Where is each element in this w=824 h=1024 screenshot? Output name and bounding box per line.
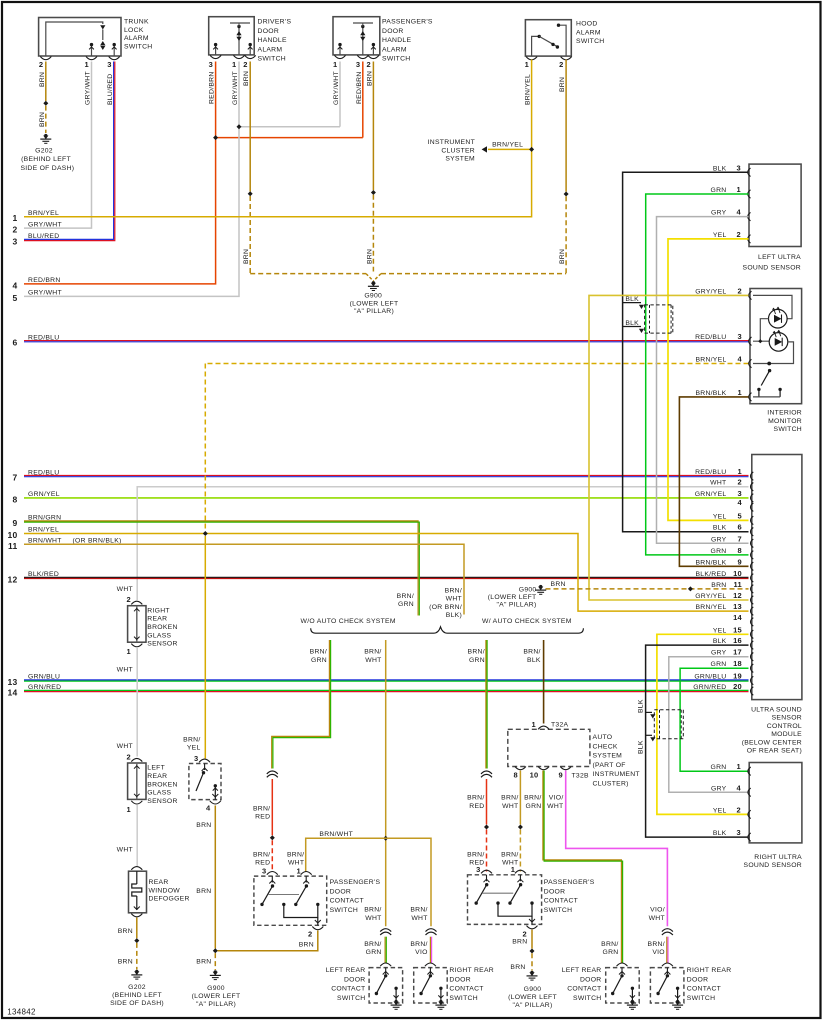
svg-text:BLU/RED: BLU/RED xyxy=(107,74,114,105)
svg-text:WHT: WHT xyxy=(502,803,518,810)
svg-text:GRN: GRN xyxy=(469,657,485,664)
interior monitor switch box xyxy=(750,289,802,404)
svg-text:1: 1 xyxy=(511,865,515,874)
svg-text:(OR BRN/: (OR BRN/ xyxy=(429,604,462,611)
driver door contact switch xyxy=(199,759,210,762)
svg-text:ALARM: ALARM xyxy=(576,29,601,36)
svg-text:ALARM: ALARM xyxy=(382,46,407,53)
wire BLU/RED trunk pin3 to wire3 xyxy=(24,62,114,240)
svg-text:BRN: BRN xyxy=(559,249,566,264)
svg-text:BRN: BRN xyxy=(196,888,211,895)
svg-text:(LOWER LEFT: (LOWER LEFT xyxy=(192,993,241,1000)
svg-text:BRN/: BRN/ xyxy=(468,649,485,656)
wire BRN/BLK interior pin1 to module pin9 xyxy=(679,397,748,566)
svg-text:11: 11 xyxy=(734,580,743,589)
wire VIO/WHT T32B pin9 to right rear door contact switch 2 xyxy=(566,771,668,927)
svg-text:SWITCH: SWITCH xyxy=(382,56,411,63)
svg-text:RIGHT REAR: RIGHT REAR xyxy=(687,967,732,974)
svg-text:SOUND SENSOR: SOUND SENSOR xyxy=(743,265,802,272)
wire 14 GRN/RED to module pin20 xyxy=(24,689,749,691)
svg-text:6: 6 xyxy=(738,523,742,532)
svg-text:GRY/YEL: GRY/YEL xyxy=(695,593,726,600)
svg-text:BLK): BLK) xyxy=(446,612,462,619)
svg-text:CLUSTER): CLUSTER) xyxy=(593,781,629,788)
svg-text:12: 12 xyxy=(733,591,742,600)
ground G202 bottom xyxy=(134,971,139,975)
svg-text:1: 1 xyxy=(127,647,131,656)
rear window defogger xyxy=(131,867,142,870)
svg-text:INTERIOR: INTERIOR xyxy=(767,410,802,417)
svg-text:BRN/YEL: BRN/YEL xyxy=(695,604,726,611)
wire 9 BRN/GRN to brace feeder xyxy=(24,521,418,616)
svg-text:SIDE OF DASH): SIDE OF DASH) xyxy=(20,165,74,172)
svg-text:17: 17 xyxy=(733,648,742,657)
svg-text:BRN/: BRN/ xyxy=(364,941,381,948)
module pin connectors and labels xyxy=(751,472,754,480)
svg-text:2: 2 xyxy=(523,930,527,939)
svg-text:REAR: REAR xyxy=(147,616,167,623)
brace wire 3 BRN/GRN to passenger door contact switch 2 pin3 xyxy=(485,640,487,769)
svg-text:RED/BRN: RED/BRN xyxy=(209,71,216,104)
svg-text:BRN: BRN xyxy=(366,71,373,86)
svg-text:1: 1 xyxy=(525,60,529,69)
svg-text:10: 10 xyxy=(530,771,539,780)
svg-text:DEFOGGER: DEFOGGER xyxy=(149,896,190,903)
svg-text:1: 1 xyxy=(737,762,741,771)
svg-text:(BEHIND LEFT: (BEHIND LEFT xyxy=(21,156,71,163)
svg-text:YEL: YEL xyxy=(713,232,727,239)
wire WHT between sensors xyxy=(136,647,138,757)
svg-text:RIGHT REAR: RIGHT REAR xyxy=(449,967,494,974)
wire BRN driver contact pin4 to G900 lower xyxy=(214,806,216,949)
svg-text:GRY/WHT: GRY/WHT xyxy=(232,71,239,105)
svg-text:GRN: GRN xyxy=(711,661,727,668)
svg-text:SWITCH: SWITCH xyxy=(449,995,478,1002)
svg-text:13: 13 xyxy=(733,602,742,611)
svg-text:14: 14 xyxy=(7,688,17,698)
svg-text:RED/BLU: RED/BLU xyxy=(695,469,726,476)
driver door handle alarm switch S2 xyxy=(209,17,255,55)
svg-text:RIGHT: RIGHT xyxy=(147,607,170,614)
passenger door contact switch 1 xyxy=(267,872,278,875)
svg-text:BRN/: BRN/ xyxy=(253,851,270,858)
svg-text:PASSENGER'S: PASSENGER'S xyxy=(382,19,433,26)
svg-text:GLASS: GLASS xyxy=(147,632,171,639)
svg-text:WHT: WHT xyxy=(365,657,381,664)
svg-text:3: 3 xyxy=(737,828,741,837)
svg-text:2: 2 xyxy=(127,595,131,604)
svg-text:VIO: VIO xyxy=(415,949,428,956)
auto check system dashed box xyxy=(508,729,590,766)
right ultra sound sensor box xyxy=(749,763,802,843)
svg-text:BRN/YEL: BRN/YEL xyxy=(28,527,59,534)
svg-text:BLK: BLK xyxy=(637,740,644,754)
svg-text:BLK: BLK xyxy=(625,296,639,303)
svg-text:BRN: BRN xyxy=(118,928,133,935)
svg-text:YEL: YEL xyxy=(187,745,201,752)
wire YEL module pin15 to right sensor pin2 xyxy=(657,634,749,814)
svg-text:3: 3 xyxy=(737,163,741,172)
svg-text:8: 8 xyxy=(514,771,518,780)
svg-text:YEL: YEL xyxy=(713,627,727,634)
wire BRN/YEL hood pin1 to wire1 xyxy=(24,60,532,217)
svg-text:ULTRA SOUND: ULTRA SOUND xyxy=(751,707,802,714)
svg-text:"A" PILLAR): "A" PILLAR) xyxy=(196,1001,236,1008)
svg-text:SWITCH: SWITCH xyxy=(544,907,573,914)
wire RED/BRN driver pin3 to wire4 and passenger pin3 xyxy=(24,62,216,284)
svg-text:GRY: GRY xyxy=(711,210,727,217)
svg-text:BLK/RED: BLK/RED xyxy=(695,571,726,578)
svg-text:BRN/: BRN/ xyxy=(601,941,618,948)
left rear door contact switch 1 xyxy=(369,968,403,1003)
svg-text:SWITCH: SWITCH xyxy=(573,995,602,1002)
svg-text:DOOR: DOOR xyxy=(544,888,566,895)
svg-text:BRN/: BRN/ xyxy=(524,795,541,802)
wire BRN passenger pin2 xyxy=(372,62,374,191)
wire BRN trunk pin2 to G202 xyxy=(45,62,47,102)
svg-text:BRN/YEL: BRN/YEL xyxy=(695,357,726,364)
wire BRN/WHT T32B pin8 to passenger door contact switch 2 pin1 xyxy=(519,771,521,825)
wire WHT broken glass sensors to module pin2 xyxy=(137,487,748,600)
wire 7 RED/BLU to module pin1 xyxy=(24,475,749,477)
svg-text:1: 1 xyxy=(127,805,131,814)
svg-text:(BELOW CENTER: (BELOW CENTER xyxy=(742,739,802,746)
svg-text:BRN/: BRN/ xyxy=(364,907,381,914)
svg-text:2: 2 xyxy=(737,230,741,239)
svg-text:2: 2 xyxy=(738,478,742,487)
svg-text:W/O AUTO CHECK SYSTEM: W/O AUTO CHECK SYSTEM xyxy=(301,618,396,625)
svg-text:1: 1 xyxy=(737,185,741,194)
svg-text:10: 10 xyxy=(733,569,742,578)
svg-text:3: 3 xyxy=(262,866,266,875)
svg-text:CONTACT: CONTACT xyxy=(330,898,364,905)
wire GRY/YEL interior pin2 to module pin12 xyxy=(589,295,749,600)
svg-text:2: 2 xyxy=(737,805,741,814)
wire 12 BLK/RED to module pin10 xyxy=(24,576,749,578)
svg-text:WHT: WHT xyxy=(547,803,563,810)
svg-text:BRN/: BRN/ xyxy=(467,851,484,858)
svg-text:AUTO: AUTO xyxy=(593,734,613,741)
svg-text:BRN: BRN xyxy=(243,249,250,264)
svg-text:BRN: BRN xyxy=(39,72,46,87)
svg-text:GRN/BLU: GRN/BLU xyxy=(694,674,726,681)
svg-text:HOOD: HOOD xyxy=(576,21,598,28)
wire 11 BRN/WHT to brace feeder xyxy=(24,544,464,614)
svg-text:3: 3 xyxy=(738,489,742,498)
svg-text:(BEHIND LEFT: (BEHIND LEFT xyxy=(112,992,162,999)
svg-text:WHT: WHT xyxy=(411,915,427,922)
svg-text:REAR: REAR xyxy=(147,773,167,780)
wire BRN/YEL dashed interior monitor pin4 to driver door contact switch xyxy=(205,363,748,365)
svg-text:WHT: WHT xyxy=(649,915,665,922)
svg-text:ALARM: ALARM xyxy=(124,35,149,42)
svg-text:(LOWER LEFT: (LOWER LEFT xyxy=(488,594,537,601)
svg-text:BRN/: BRN/ xyxy=(253,805,270,812)
svg-text:BLK: BLK xyxy=(713,830,727,837)
svg-text:19: 19 xyxy=(733,672,742,681)
left rear door contact switch 2 xyxy=(606,968,640,1003)
svg-text:9: 9 xyxy=(12,518,17,528)
svg-text:W/ AUTO CHECK SYSTEM: W/ AUTO CHECK SYSTEM xyxy=(482,618,572,625)
svg-text:4: 4 xyxy=(737,208,742,217)
svg-text:GLASS: GLASS xyxy=(147,790,171,797)
svg-text:RED/BLU: RED/BLU xyxy=(695,334,726,341)
svg-text:4: 4 xyxy=(738,355,743,364)
wire GRY/WHT driver pin1 to wire5 and passenger pin1 xyxy=(24,62,239,297)
svg-text:CONTACT: CONTACT xyxy=(449,986,483,993)
passenger door contact switch 2 xyxy=(481,870,492,873)
ultra sound sensor control module box xyxy=(752,455,802,700)
svg-text:BRN/: BRN/ xyxy=(364,649,381,656)
svg-text:HANDLE: HANDLE xyxy=(258,37,287,44)
svg-text:SYSTEM: SYSTEM xyxy=(445,156,475,163)
svg-text:2: 2 xyxy=(367,60,371,69)
svg-text:WINDOW: WINDOW xyxy=(149,887,181,894)
svg-text:SOUND SENSOR: SOUND SENSOR xyxy=(744,862,803,869)
svg-text:BRN/: BRN/ xyxy=(648,941,665,948)
svg-text:SENSOR: SENSOR xyxy=(147,798,177,805)
svg-text:BRN/: BRN/ xyxy=(501,795,518,802)
wire GRY/WHT trunk pin1 to wire2 xyxy=(24,62,92,229)
svg-text:BLU/RED: BLU/RED xyxy=(28,233,59,240)
svg-text:T32A: T32A xyxy=(551,722,569,729)
svg-text:BRN: BRN xyxy=(243,71,250,86)
svg-text:VIO: VIO xyxy=(652,949,665,956)
svg-text:G900: G900 xyxy=(519,586,537,593)
svg-text:GRN: GRN xyxy=(526,803,542,810)
wire BRN passenger contact 1 pin2 to G900 join xyxy=(218,931,318,951)
wire GRY module pin17 to right sensor pin4 xyxy=(669,657,749,793)
svg-text:BRN: BRN xyxy=(39,112,46,127)
svg-text:1: 1 xyxy=(738,467,742,476)
svg-text:WHT: WHT xyxy=(710,480,726,487)
svg-text:20: 20 xyxy=(733,682,742,691)
svg-text:2: 2 xyxy=(127,752,131,761)
G900 ground top center xyxy=(366,274,373,281)
svg-text:WHT: WHT xyxy=(117,586,133,593)
svg-text:13: 13 xyxy=(7,677,17,687)
svg-text:GRY/WHT: GRY/WHT xyxy=(85,71,92,105)
brace wire 1 BRN/GRN to passenger door contact switch 1 pin3 xyxy=(272,640,330,769)
trunk lock alarm switch S1 xyxy=(39,18,121,57)
svg-text:5: 5 xyxy=(738,511,742,520)
svg-text:YEL: YEL xyxy=(713,513,727,520)
svg-text:2: 2 xyxy=(243,60,247,69)
svg-text:RED: RED xyxy=(255,814,270,821)
svg-text:SWITCH: SWITCH xyxy=(258,56,287,63)
svg-text:BLK: BLK xyxy=(527,657,541,664)
svg-text:DOOR: DOOR xyxy=(382,28,404,35)
right rear door contact switch 1 xyxy=(414,968,448,1003)
svg-text:G202: G202 xyxy=(128,984,146,991)
svg-text:GRN: GRN xyxy=(711,548,727,555)
svg-text:1: 1 xyxy=(12,213,17,223)
svg-text:1: 1 xyxy=(738,388,742,397)
svg-text:(LOWER LEFT: (LOWER LEFT xyxy=(508,994,557,1001)
svg-text:CONTACT: CONTACT xyxy=(331,986,365,993)
svg-text:"A" PILLAR): "A" PILLAR) xyxy=(354,308,394,315)
wire GRN left sensor pin1 to module pin8 xyxy=(646,194,749,555)
svg-text:3: 3 xyxy=(356,60,360,69)
svg-text:BRN/YEL: BRN/YEL xyxy=(492,142,523,149)
svg-text:GRN/RED: GRN/RED xyxy=(693,684,726,691)
svg-text:BRN/: BRN/ xyxy=(467,795,484,802)
svg-text:BRN/WHT: BRN/WHT xyxy=(319,831,353,838)
svg-text:3: 3 xyxy=(476,865,480,874)
svg-text:BRN/: BRN/ xyxy=(410,941,427,948)
svg-text:15: 15 xyxy=(733,625,742,634)
svg-text:BROKEN: BROKEN xyxy=(147,624,177,631)
svg-text:8: 8 xyxy=(738,546,742,555)
svg-text:BRN: BRN xyxy=(559,77,566,92)
svg-text:G202: G202 xyxy=(35,148,53,155)
right rear door contact switch 2 xyxy=(650,968,684,1003)
svg-text:10: 10 xyxy=(7,530,17,540)
svg-text:BRN: BRN xyxy=(118,958,133,965)
svg-text:SWITCH: SWITCH xyxy=(330,907,359,914)
svg-text:DOOR: DOOR xyxy=(687,976,709,983)
svg-text:GRN: GRN xyxy=(311,657,327,664)
svg-text:BRN: BRN xyxy=(366,249,373,264)
svg-text:BRN/: BRN/ xyxy=(501,851,518,858)
svg-text:BLK: BLK xyxy=(713,165,727,172)
wire 6 RED/BLU to interior monitor pin3 xyxy=(24,340,749,342)
svg-text:VIO/: VIO/ xyxy=(549,795,564,802)
svg-text:BRN: BRN xyxy=(196,959,211,966)
wire BLK left sensor pin3 to module pin6 xyxy=(623,172,749,531)
svg-text:WHT: WHT xyxy=(117,846,133,853)
svg-text:9: 9 xyxy=(559,771,563,780)
wire BRN hood pin2 xyxy=(565,60,567,192)
svg-text:GRN: GRN xyxy=(711,187,727,194)
svg-text:CLUSTER: CLUSTER xyxy=(441,147,475,154)
svg-text:BLK: BLK xyxy=(625,320,639,327)
svg-text:5: 5 xyxy=(12,293,17,303)
svg-text:BRN/: BRN/ xyxy=(310,649,327,656)
svg-text:CONTROL: CONTROL xyxy=(767,723,802,730)
svg-text:3: 3 xyxy=(12,237,17,247)
svg-text:BRN/: BRN/ xyxy=(397,593,414,600)
svg-text:HANDLE: HANDLE xyxy=(382,37,411,44)
svg-text:RED: RED xyxy=(469,803,484,810)
svg-text:BRN: BRN xyxy=(551,581,566,588)
instrument cluster system arrow xyxy=(488,148,531,150)
svg-text:GRN: GRN xyxy=(603,949,619,956)
svg-text:(PART OF: (PART OF xyxy=(593,762,626,769)
svg-text:RED/BRN: RED/BRN xyxy=(356,71,363,104)
svg-text:INSTRUMENT: INSTRUMENT xyxy=(593,771,640,778)
svg-text:TRUNK: TRUNK xyxy=(124,19,149,26)
wire WHT to rear window defogger xyxy=(136,805,138,866)
svg-text:(OR BRN/BLK): (OR BRN/BLK) xyxy=(73,538,122,545)
shield symbol upper with BLK drains xyxy=(623,302,641,304)
svg-text:DOOR: DOOR xyxy=(258,28,280,35)
svg-text:2: 2 xyxy=(559,60,563,69)
svg-text:MONITOR: MONITOR xyxy=(768,418,802,425)
svg-text:1: 1 xyxy=(85,60,89,69)
svg-text:SWITCH: SWITCH xyxy=(687,995,716,1002)
svg-text:DRIVER'S: DRIVER'S xyxy=(258,19,292,26)
svg-text:BLK: BLK xyxy=(713,638,727,645)
svg-text:18: 18 xyxy=(733,659,742,668)
svg-text:BRN/: BRN/ xyxy=(183,737,200,744)
svg-text:7: 7 xyxy=(738,534,742,543)
svg-text:(LOWER LEFT: (LOWER LEFT xyxy=(350,300,399,307)
svg-text:4: 4 xyxy=(12,280,17,290)
wire BRN/GRN T32B pin10 to left rear door contact switch 2 xyxy=(543,771,622,964)
wire 8 GRN/YEL to module pin3 xyxy=(24,497,749,499)
svg-text:CONTACT: CONTACT xyxy=(567,986,601,993)
svg-text:BRN/BLK: BRN/BLK xyxy=(695,390,726,397)
svg-text:BRN/: BRN/ xyxy=(445,587,462,594)
svg-text:14: 14 xyxy=(733,613,742,622)
svg-text:BRN/YEL: BRN/YEL xyxy=(525,74,532,105)
svg-text:BRN/: BRN/ xyxy=(410,907,427,914)
svg-text:1: 1 xyxy=(297,866,301,875)
svg-text:GRY/WHT: GRY/WHT xyxy=(28,221,62,228)
svg-text:GRY: GRY xyxy=(711,785,727,792)
wire 13 GRN/BLU to module pin19 xyxy=(24,679,749,681)
svg-text:DOOR: DOOR xyxy=(330,888,352,895)
svg-text:4: 4 xyxy=(206,804,211,813)
svg-text:12: 12 xyxy=(7,574,17,584)
svg-text:SWITCH: SWITCH xyxy=(337,995,366,1002)
svg-text:GRN: GRN xyxy=(711,764,727,771)
svg-text:134842: 134842 xyxy=(7,1008,36,1017)
svg-text:DOOR: DOOR xyxy=(344,976,366,983)
svg-text:OF REAR SEAT): OF REAR SEAT) xyxy=(747,748,802,755)
svg-text:LEFT REAR: LEFT REAR xyxy=(562,967,602,974)
svg-text:WHT: WHT xyxy=(365,915,381,922)
svg-text:INSTRUMENT: INSTRUMENT xyxy=(428,139,475,146)
svg-text:WHT: WHT xyxy=(117,667,133,674)
svg-text:CHECK: CHECK xyxy=(593,743,618,750)
wire BRN passenger contact 2 pin2 to G900 xyxy=(531,930,533,949)
svg-text:G900: G900 xyxy=(207,985,225,992)
svg-text:2: 2 xyxy=(39,60,43,69)
svg-text:BRN: BRN xyxy=(510,964,525,971)
svg-text:"A" PILLAR): "A" PILLAR) xyxy=(496,601,536,608)
svg-text:11: 11 xyxy=(8,541,18,551)
svg-text:7: 7 xyxy=(12,473,17,483)
svg-text:GRN: GRN xyxy=(398,601,414,608)
interior monitor switch internals xyxy=(753,295,792,318)
svg-text:GRN/YEL: GRN/YEL xyxy=(695,491,727,498)
svg-text:SYSTEM: SYSTEM xyxy=(593,753,623,760)
wire BRN driver pin2 dashed bus to G900 xyxy=(249,62,251,192)
svg-text:WHT: WHT xyxy=(446,596,462,603)
svg-text:SIDE OF DASH): SIDE OF DASH) xyxy=(110,1000,164,1007)
svg-text:VIO/: VIO/ xyxy=(650,907,665,914)
svg-text:"A" PILLAR): "A" PILLAR) xyxy=(512,1002,552,1009)
svg-text:SWITCH: SWITCH xyxy=(124,43,153,50)
svg-text:LEFT ULTRA: LEFT ULTRA xyxy=(758,254,801,261)
svg-text:LEFT: LEFT xyxy=(147,765,165,772)
ground G202 top xyxy=(43,136,48,140)
svg-text:8: 8 xyxy=(12,494,17,504)
svg-text:3: 3 xyxy=(209,60,213,69)
wire GRY left sensor pin4 to module pin7 xyxy=(657,217,749,544)
svg-text:G900: G900 xyxy=(364,293,382,300)
ground G900 lower left xyxy=(213,972,218,976)
svg-text:SWITCH: SWITCH xyxy=(774,426,803,433)
svg-text:1: 1 xyxy=(232,60,236,69)
svg-text:SENSOR: SENSOR xyxy=(147,641,177,648)
svg-text:BLK: BLK xyxy=(637,699,644,713)
svg-text:BRN/: BRN/ xyxy=(523,649,540,656)
hood alarm switch S4 xyxy=(525,20,571,56)
svg-text:LEFT REAR: LEFT REAR xyxy=(326,967,366,974)
